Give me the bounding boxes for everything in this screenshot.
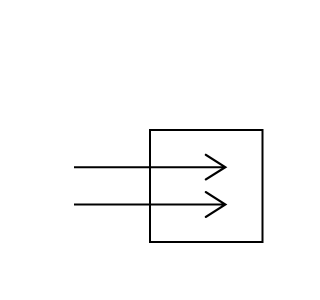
arrowhead (lower input)	[206, 192, 226, 217]
wire (lower input)	[74, 204, 225, 206]
wire (upper input)	[74, 166, 225, 168]
block	[150, 130, 263, 242]
arrowhead (upper input)	[206, 155, 226, 180]
